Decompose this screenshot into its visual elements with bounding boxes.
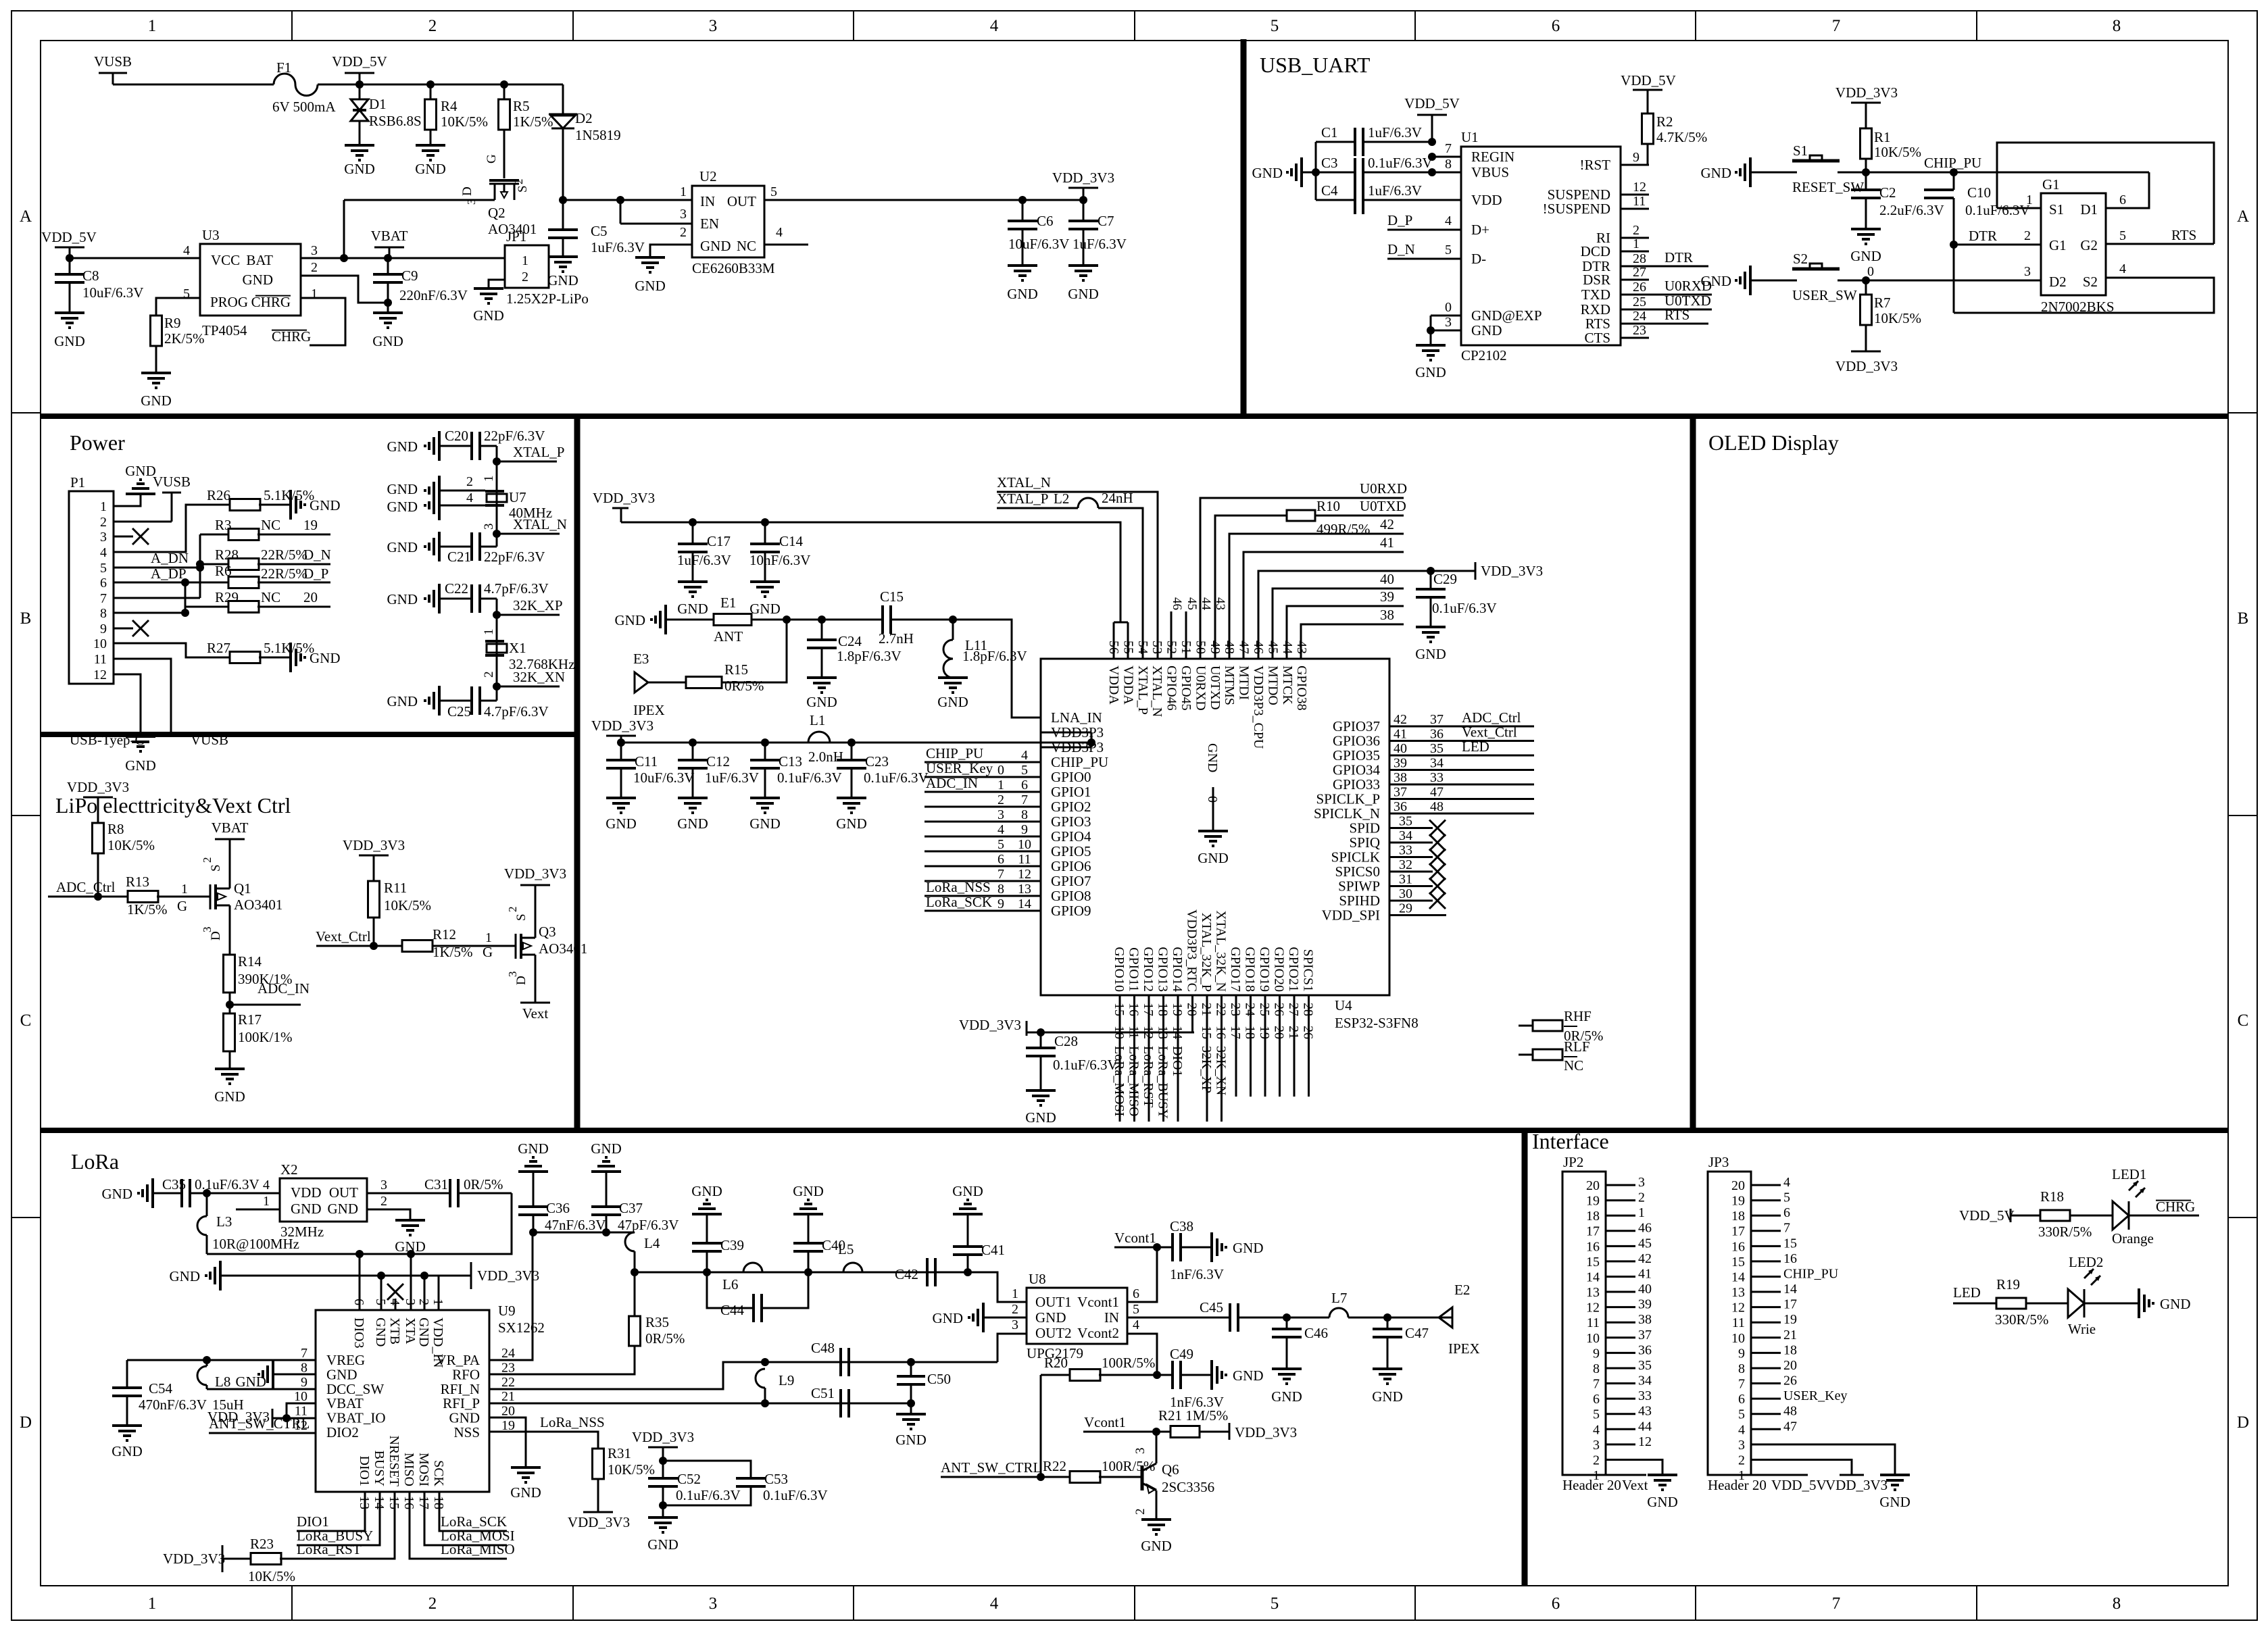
- IC U8 UPG2179: [1027, 1288, 1127, 1344]
- svg-text:GPIO46: GPIO46: [1164, 666, 1179, 711]
- svg-text:R15: R15: [724, 661, 748, 678]
- svg-text:1K/5%: 1K/5%: [433, 944, 473, 960]
- svg-text:100R/5%: 100R/5%: [1102, 1458, 1155, 1474]
- svg-text:43: 43: [1638, 1404, 1652, 1419]
- svg-text:R7: R7: [1874, 295, 1891, 311]
- svg-text:R11: R11: [384, 880, 407, 896]
- svg-text:47nF/6.3V: 47nF/6.3V: [545, 1217, 606, 1233]
- svg-text:18: 18: [1783, 1343, 1797, 1357]
- svg-text:1K/5%: 1K/5%: [127, 901, 168, 918]
- svg-text:6: 6: [100, 576, 107, 591]
- wire U2 GND pin2 to ground: [650, 245, 692, 257]
- svg-text:R14: R14: [238, 953, 262, 970]
- svg-text:ADC_IN: ADC_IN: [257, 980, 310, 997]
- svg-text:R1: R1: [1874, 129, 1891, 145]
- svg-text:ADC_IN: ADC_IN: [926, 775, 978, 791]
- svg-text:R3: R3: [215, 517, 232, 533]
- svg-text:0R/5%: 0R/5%: [724, 678, 764, 694]
- svg-text:USER_Key: USER_Key: [1783, 1388, 1847, 1403]
- svg-text:1: 1: [100, 499, 107, 514]
- svg-text:26: 26: [1783, 1374, 1797, 1388]
- crystal U7 ground pin 4: [438, 491, 441, 520]
- svg-text:REGIN: REGIN: [1471, 149, 1514, 165]
- svg-text:SPIHD: SPIHD: [1339, 893, 1380, 909]
- svg-text:LoRa_NSS: LoRa_NSS: [540, 1414, 605, 1430]
- capacitor C31 0R/5%: [449, 1179, 451, 1207]
- header JP1 1.25X2P-LiPo: [505, 245, 549, 288]
- svg-text:RFI_P: RFI_P: [443, 1395, 480, 1411]
- svg-text:0.1uF/6.3V: 0.1uF/6.3V: [864, 770, 929, 786]
- svg-text:11: 11: [1732, 1315, 1745, 1330]
- svg-text:2: 2: [428, 1595, 437, 1613]
- svg-text:5: 5: [1445, 243, 1452, 257]
- svg-text:4: 4: [100, 545, 107, 560]
- svg-text:D_P: D_P: [303, 566, 328, 582]
- svg-text:GND: GND: [615, 612, 646, 628]
- inductor L1 2.0nH: [808, 732, 830, 743]
- svg-text:D: D: [460, 186, 474, 196]
- svg-text:24nH: 24nH: [1102, 490, 1133, 506]
- svg-text:2: 2: [466, 474, 473, 489]
- svg-text:1uF/6.3V: 1uF/6.3V: [677, 552, 731, 568]
- capacitor C36 47nF/6.3V: [518, 1170, 548, 1173]
- svg-text:4: 4: [997, 822, 1004, 837]
- svg-text:9: 9: [1021, 822, 1028, 837]
- svg-text:GND: GND: [606, 815, 637, 832]
- ground below C6: [1008, 264, 1037, 267]
- svg-text:L1: L1: [810, 712, 825, 728]
- resistor RHF 0R/5%: [1519, 1025, 1533, 1027]
- ground below C2: [1851, 228, 1881, 230]
- svg-text:GND: GND: [112, 1443, 143, 1459]
- wire U2 OUT to VDD_3V3: [764, 199, 1083, 201]
- svg-text:R35: R35: [645, 1314, 669, 1330]
- svg-text:DCC_SW: DCC_SW: [326, 1381, 384, 1397]
- svg-text:A_DN: A_DN: [151, 550, 189, 566]
- svg-text:SPID: SPID: [1349, 820, 1380, 836]
- svg-text:1: 1: [263, 1194, 270, 1209]
- svg-text:17: 17: [1228, 1026, 1243, 1039]
- svg-text:GPIO3: GPIO3: [1051, 813, 1091, 830]
- svg-text:3: 3: [709, 1595, 718, 1613]
- svg-text:U0RXD: U0RXD: [1360, 480, 1407, 497]
- wire C31 return loop: [207, 1193, 512, 1254]
- resistor R7 10K/5% to VDD_3V3: [1865, 280, 1867, 295]
- svg-text:XTAL_P: XTAL_P: [997, 491, 1048, 507]
- net XTAL_N: [493, 530, 501, 538]
- svg-text:4: 4: [2119, 261, 2126, 276]
- ground below U1: [1416, 344, 1446, 347]
- net Vext below Q3: [535, 955, 537, 1003]
- svg-text:17: 17: [1783, 1297, 1797, 1312]
- svg-text:19: 19: [1586, 1194, 1600, 1209]
- svg-text:R18: R18: [2040, 1188, 2064, 1205]
- svg-text:Vcont1: Vcont1: [1114, 1230, 1156, 1246]
- svg-text:XTA: XTA: [403, 1318, 418, 1345]
- ground below C17: [678, 580, 708, 583]
- svg-text:G1: G1: [2049, 237, 2067, 253]
- svg-text:CE6260B33M: CE6260B33M: [692, 260, 775, 276]
- svg-text:GND: GND: [749, 601, 781, 617]
- svg-text:VDD_3V3: VDD_3V3: [591, 718, 654, 734]
- inductor L7: [1287, 1317, 1329, 1319]
- svg-text:VDD_3V3: VDD_3V3: [1835, 358, 1898, 374]
- svg-text:CHIP_PU: CHIP_PU: [1783, 1266, 1839, 1281]
- svg-text:GND: GND: [1879, 1494, 1910, 1510]
- svg-text:A: A: [20, 207, 32, 226]
- svg-text:C35: C35: [162, 1176, 186, 1193]
- svg-text:C49: C49: [1170, 1346, 1193, 1362]
- svg-text:4.7pF/6.3V: 4.7pF/6.3V: [484, 703, 549, 720]
- svg-text:3: 3: [1133, 1448, 1148, 1455]
- svg-text:S2: S2: [1793, 251, 1808, 267]
- svg-text:3: 3: [100, 530, 107, 545]
- svg-text:C54: C54: [149, 1380, 173, 1397]
- wire L8 to DCC_SW: [207, 1388, 316, 1390]
- ground below D1: [345, 144, 374, 147]
- svg-text:VDD_5V: VDD_5V: [1621, 72, 1676, 89]
- svg-text:MTDI: MTDI: [1237, 666, 1252, 700]
- svg-text:40: 40: [1380, 571, 1394, 587]
- svg-text:48: 48: [1430, 799, 1444, 814]
- svg-text:35: 35: [1399, 814, 1412, 829]
- svg-text:35: 35: [1638, 1358, 1652, 1373]
- svg-text:A_DP: A_DP: [151, 566, 187, 582]
- svg-text:5: 5: [1271, 1595, 1279, 1613]
- capacitor C52 0.1uF/6.3V: [662, 1461, 664, 1478]
- net U0TXD stub: [1649, 309, 1712, 311]
- svg-text:7: 7: [997, 867, 1004, 882]
- svg-text:R17: R17: [238, 1011, 262, 1028]
- capacitor C53 0.1uF/6.3V loop: [663, 1461, 751, 1478]
- wire U9 top gnd row: [220, 1275, 471, 1277]
- svg-text:3: 3: [403, 1299, 418, 1305]
- wire U2 NC pin4 stub: [764, 244, 808, 246]
- svg-text:GND: GND: [449, 1410, 480, 1426]
- svg-text:47pF/6.3V: 47pF/6.3V: [618, 1217, 679, 1233]
- svg-text:C5: C5: [591, 223, 608, 239]
- svg-text:SPICLK_N: SPICLK_N: [1314, 805, 1380, 822]
- svg-text:C50: C50: [927, 1371, 951, 1387]
- svg-text:6: 6: [1738, 1392, 1745, 1407]
- capacitor C50: [910, 1362, 912, 1376]
- svg-text:5: 5: [1783, 1190, 1790, 1205]
- svg-text:15: 15: [1586, 1255, 1600, 1270]
- svg-text:8: 8: [301, 1360, 307, 1375]
- svg-text:LoRa_SCK: LoRa_SCK: [441, 1513, 507, 1530]
- svg-text:B: B: [2238, 609, 2249, 628]
- capacitor C29 0.1uF/6.3V: [1430, 571, 1432, 589]
- wire U3 CHRG pin1 to CHRG label: [301, 298, 345, 345]
- svg-text:2: 2: [522, 270, 528, 284]
- svg-text:SPIWP: SPIWP: [1338, 878, 1380, 895]
- resistor R13 1K/5%: [128, 891, 158, 903]
- ground below R9: [141, 372, 171, 374]
- svg-text:RTS: RTS: [1665, 307, 1690, 323]
- svg-text:2.7nH: 2.7nH: [879, 630, 914, 647]
- svg-text:9: 9: [1738, 1346, 1745, 1361]
- svg-text:R2: R2: [1656, 114, 1673, 130]
- svg-text:GND: GND: [291, 1201, 322, 1217]
- svg-text:NSS: NSS: [453, 1424, 480, 1440]
- svg-text:LoRa_MISO: LoRa_MISO: [1127, 1046, 1141, 1116]
- svg-text:GND: GND: [510, 1484, 541, 1501]
- LED LED1 Orange: [2113, 1201, 2129, 1230]
- svg-text:20: 20: [1272, 1026, 1287, 1039]
- svg-text:2.0nH: 2.0nH: [808, 749, 843, 765]
- capacitor C7 1uF/6.3V: [1083, 200, 1085, 221]
- svg-text:C17: C17: [707, 533, 731, 549]
- svg-text:34: 34: [1399, 828, 1412, 843]
- svg-text:2: 2: [1738, 1453, 1745, 1467]
- svg-text:R29: R29: [215, 589, 239, 605]
- svg-text:10: 10: [294, 1389, 307, 1404]
- svg-text:0.1uF/6.3V: 0.1uF/6.3V: [763, 1487, 828, 1503]
- svg-text:NC: NC: [737, 238, 756, 254]
- svg-text:10: 10: [1018, 837, 1031, 852]
- net U0RXD stub: [1649, 294, 1712, 296]
- ground below U2: [635, 256, 665, 259]
- svg-text:VBAT: VBAT: [371, 228, 408, 244]
- svg-text:3: 3: [1738, 1438, 1745, 1453]
- X2 pin1 stub: [236, 1209, 280, 1211]
- svg-text:VDD_SPI: VDD_SPI: [1322, 907, 1380, 924]
- inductor L3 10R@100MHz: [206, 1193, 208, 1216]
- svg-text:0: 0: [1445, 300, 1452, 315]
- svg-text:VUSB: VUSB: [191, 732, 228, 748]
- svg-text:VDD_3V3: VDD_3V3: [163, 1551, 225, 1567]
- svg-text:GND: GND: [243, 272, 274, 288]
- svg-text:Interface: Interface: [1532, 1129, 1609, 1153]
- svg-text:7: 7: [1832, 1595, 1841, 1613]
- svg-text:330R/5%: 330R/5%: [1995, 1311, 2048, 1328]
- svg-text:4: 4: [1445, 214, 1452, 228]
- svg-text:S2: S2: [2083, 274, 2098, 290]
- svg-text:Vext: Vext: [522, 1005, 549, 1022]
- svg-text:USB_UART: USB_UART: [1260, 53, 1371, 77]
- svg-text:Vext_Ctrl: Vext_Ctrl: [1462, 724, 1517, 741]
- svg-text:JP3: JP3: [1708, 1154, 1729, 1170]
- svg-text:31: 31: [1399, 872, 1412, 887]
- svg-text:GPIO6: GPIO6: [1051, 858, 1091, 874]
- svg-text:GND: GND: [749, 815, 781, 832]
- svg-text:OUT: OUT: [329, 1184, 358, 1201]
- svg-text:4: 4: [990, 1595, 999, 1613]
- svg-text:36: 36: [1638, 1343, 1652, 1357]
- svg-text:20: 20: [1586, 1178, 1600, 1193]
- svg-text:TXD: TXD: [1581, 286, 1610, 303]
- svg-text:45: 45: [1185, 597, 1199, 610]
- svg-text:LoRa_SCK: LoRa_SCK: [926, 894, 992, 910]
- svg-text:3: 3: [709, 17, 718, 35]
- wire VDD_5V to VCC: [70, 257, 200, 259]
- svg-text:XTAL_32K_N: XTAL_32K_N: [1214, 910, 1229, 992]
- svg-text:7: 7: [301, 1346, 307, 1361]
- resistor R35 0R/5%: [634, 1272, 636, 1316]
- svg-text:SPICS0: SPICS0: [1335, 863, 1380, 880]
- svg-text:19: 19: [303, 517, 318, 533]
- svg-text:6: 6: [351, 1299, 366, 1305]
- ground below C28: [1026, 1089, 1056, 1092]
- net RTS stub: [1649, 323, 1708, 325]
- VDDA pins tie to rail: [1113, 622, 1115, 659]
- RF row A: [635, 1272, 967, 1274]
- svg-text:GND: GND: [591, 1140, 622, 1157]
- svg-text:U7: U7: [509, 489, 526, 505]
- ground below C11: [606, 797, 636, 799]
- svg-text:GND: GND: [836, 815, 867, 832]
- svg-text:GND: GND: [1035, 1309, 1066, 1326]
- svg-text:C53: C53: [764, 1471, 788, 1487]
- svg-text:44: 44: [1638, 1419, 1652, 1434]
- svg-text:GND: GND: [1025, 1109, 1056, 1126]
- svg-text:1.8pF/6.3V: 1.8pF/6.3V: [837, 648, 902, 664]
- svg-text:8: 8: [1738, 1361, 1745, 1376]
- svg-text:33: 33: [1430, 770, 1444, 785]
- svg-text:C38: C38: [1170, 1218, 1193, 1234]
- wire U9 pin20 to ground: [489, 1417, 526, 1467]
- svg-text:E1: E1: [720, 595, 736, 611]
- svg-text:RTS: RTS: [2171, 227, 2196, 243]
- svg-text:0: 0: [1867, 264, 1874, 279]
- wire RFI_N to C48 row: [489, 1362, 997, 1389]
- svg-text:4: 4: [1133, 1318, 1139, 1332]
- wire RFI_P row C51: [489, 1403, 911, 1405]
- svg-text:GPIO38: GPIO38: [1294, 666, 1309, 711]
- svg-text:CHIP_PU: CHIP_PU: [1051, 754, 1108, 770]
- capacitor C6 10uF/6.3V: [1022, 200, 1024, 221]
- wire BAT row: [301, 257, 505, 259]
- svg-text:VDDA: VDDA: [1106, 666, 1121, 705]
- ground left of U9 top: [219, 1261, 222, 1290]
- svg-text:Header 20: Header 20: [1708, 1477, 1767, 1493]
- svg-text:VDD3P3_CPU: VDD3P3_CPU: [1251, 666, 1266, 749]
- svg-text:8: 8: [1593, 1361, 1600, 1376]
- svg-text:8: 8: [2113, 17, 2121, 35]
- svg-text:R9: R9: [164, 315, 181, 331]
- svg-text:3: 3: [680, 207, 687, 222]
- svg-text:ANT_SW_CTRL: ANT_SW_CTRL: [209, 1415, 310, 1432]
- svg-text:R20: R20: [1044, 1355, 1068, 1371]
- svg-text:GND: GND: [1252, 165, 1283, 181]
- svg-text:4.7K/5%: 4.7K/5%: [1656, 129, 1707, 145]
- svg-text:5: 5: [1593, 1407, 1600, 1422]
- svg-text:CP2102: CP2102: [1461, 347, 1507, 363]
- svg-text:21: 21: [1783, 1328, 1797, 1343]
- svg-text:GND: GND: [415, 161, 446, 177]
- svg-text:GND: GND: [1415, 364, 1446, 380]
- svg-text:MTCK: MTCK: [1280, 666, 1295, 705]
- svg-text:Q3: Q3: [539, 924, 556, 940]
- svg-text:D1: D1: [2080, 201, 2098, 218]
- svg-text:U0RXD: U0RXD: [1193, 666, 1208, 711]
- svg-text:D_N: D_N: [303, 547, 331, 563]
- svg-text:IN: IN: [1104, 1309, 1119, 1326]
- capacitor C5 1uF/6.3V: [562, 200, 564, 230]
- svg-text:BUSY: BUSY: [372, 1451, 387, 1486]
- svg-text:USER_SW: USER_SW: [1792, 287, 1857, 303]
- svg-text:6: 6: [1593, 1392, 1600, 1407]
- svg-text:ADC_Ctrl: ADC_Ctrl: [1462, 709, 1521, 726]
- svg-text:42: 42: [1380, 516, 1394, 532]
- svg-text:LoRa_BUSY: LoRa_BUSY: [1156, 1046, 1170, 1119]
- svg-text:5: 5: [1738, 1407, 1745, 1422]
- svg-text:GPIO36: GPIO36: [1333, 733, 1380, 749]
- svg-text:40: 40: [1394, 741, 1407, 756]
- svg-text:IPEX: IPEX: [1448, 1340, 1480, 1357]
- svg-text:GPIO7: GPIO7: [1051, 873, 1091, 889]
- svg-text:RSB6.8S: RSB6.8S: [369, 113, 422, 129]
- svg-text:19: 19: [1257, 1026, 1272, 1039]
- ground below C8: [55, 311, 84, 314]
- wire feedback loop top: [1997, 143, 2214, 244]
- svg-text:R31: R31: [608, 1445, 631, 1461]
- wire P1 pin5: [114, 567, 200, 569]
- inductor L8 15uH: [206, 1360, 208, 1366]
- svg-text:C42: C42: [895, 1266, 918, 1282]
- svg-text:GPIO18: GPIO18: [1243, 947, 1258, 992]
- svg-text:GPIO21: GPIO21: [1286, 947, 1301, 992]
- svg-text:JP2: JP2: [1563, 1154, 1583, 1170]
- svg-text:7: 7: [1021, 793, 1028, 807]
- svg-text:19: 19: [1783, 1312, 1797, 1327]
- capacitor C47: [1387, 1318, 1389, 1329]
- svg-text:GND: GND: [125, 463, 156, 479]
- svg-text:C41: C41: [981, 1242, 1005, 1258]
- svg-text:37: 37: [1430, 712, 1444, 727]
- fuse F1 6V 500mA: [274, 74, 318, 96]
- svg-text:1: 1: [181, 882, 188, 897]
- svg-text:1: 1: [522, 253, 528, 268]
- svg-text:2K/5%: 2K/5%: [164, 330, 205, 347]
- svg-text:GND: GND: [214, 1088, 245, 1105]
- svg-text:22R/5%: 22R/5%: [261, 566, 307, 582]
- svg-text:XTAL_P: XTAL_P: [1135, 666, 1150, 715]
- svg-text:5: 5: [997, 837, 1004, 852]
- svg-text:GND: GND: [387, 591, 418, 607]
- svg-text:DIO1: DIO1: [1170, 1046, 1185, 1077]
- svg-text:U3: U3: [202, 227, 220, 243]
- wire Q2 source node to U2 IN: [563, 199, 692, 201]
- svg-text:33: 33: [1399, 843, 1412, 858]
- svg-text:470nF/6.3V: 470nF/6.3V: [139, 1397, 207, 1413]
- header JP3 Header 20: [1708, 1172, 1751, 1475]
- ground left of C35: [151, 1178, 154, 1208]
- wire P1 pin6: [114, 582, 185, 584]
- svg-text:D_N: D_N: [1387, 241, 1415, 257]
- capacitor C10 0.1uF/6.3V: [1924, 189, 1954, 191]
- svg-text:1uF/6.3V: 1uF/6.3V: [1073, 236, 1127, 252]
- connector P1 USB-Tyep-C: [69, 491, 114, 684]
- svg-text:32K_XN: 32K_XN: [1214, 1046, 1229, 1095]
- capacitor C46: [1286, 1318, 1288, 1329]
- svg-text:1: 1: [1638, 1205, 1645, 1220]
- svg-text:16: 16: [1783, 1251, 1797, 1266]
- svg-text:Q1: Q1: [234, 880, 251, 897]
- IPEX connector E2: [1387, 1317, 1452, 1319]
- svg-text:C3: C3: [1321, 155, 1338, 171]
- svg-text:L8: L8: [215, 1374, 230, 1390]
- svg-text:GND: GND: [793, 1183, 824, 1199]
- svg-text:4: 4: [776, 225, 783, 240]
- svg-text:9: 9: [997, 897, 1004, 911]
- inductor L5: [843, 1263, 862, 1272]
- svg-text:12: 12: [1633, 180, 1646, 195]
- svg-text:R10: R10: [1316, 498, 1340, 514]
- svg-text:0.1uF/6.3V: 0.1uF/6.3V: [676, 1487, 741, 1503]
- U1 right pin stubs: [1621, 164, 1649, 166]
- svg-text:L6: L6: [722, 1276, 738, 1293]
